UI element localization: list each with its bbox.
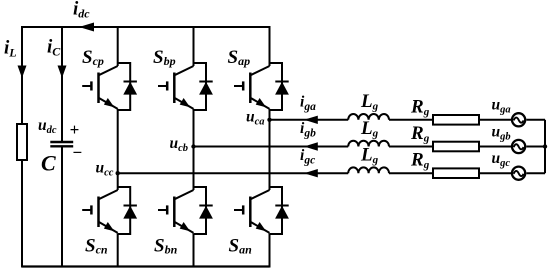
svg-text:C: C [41, 151, 56, 176]
svg-text:ugc: ugc [492, 150, 511, 169]
svg-text:iga: iga [300, 93, 316, 113]
svg-text:−: − [72, 143, 82, 162]
svg-text:uga: uga [492, 97, 511, 116]
svg-text:ucb: ucb [170, 135, 189, 154]
svg-text:Sbn: Sbn [154, 236, 178, 257]
svg-text:Rg: Rg [410, 97, 430, 119]
svg-text:Rg: Rg [410, 123, 430, 145]
svg-text:Sbp: Sbp [153, 47, 176, 68]
svg-text:ucc: ucc [96, 159, 114, 178]
svg-text:Lg: Lg [360, 118, 379, 140]
svg-text:Lg: Lg [360, 91, 379, 113]
svg-text:igc: igc [300, 147, 315, 167]
svg-text:Rg: Rg [410, 150, 430, 172]
svg-text:idc: idc [73, 0, 90, 21]
svg-text:iC: iC [47, 37, 61, 59]
svg-text:Scn: Scn [85, 236, 108, 257]
svg-text:udc: udc [38, 117, 57, 136]
svg-text:ugb: ugb [492, 123, 511, 142]
svg-text:+: + [70, 120, 80, 139]
svg-text:Scp: Scp [82, 47, 104, 68]
svg-text:iL: iL [4, 38, 17, 60]
svg-text:igb: igb [300, 120, 316, 140]
svg-text:uca: uca [246, 108, 265, 127]
svg-text:Sap: Sap [228, 47, 251, 68]
svg-text:San: San [229, 236, 253, 257]
svg-text:Lg: Lg [360, 145, 379, 167]
